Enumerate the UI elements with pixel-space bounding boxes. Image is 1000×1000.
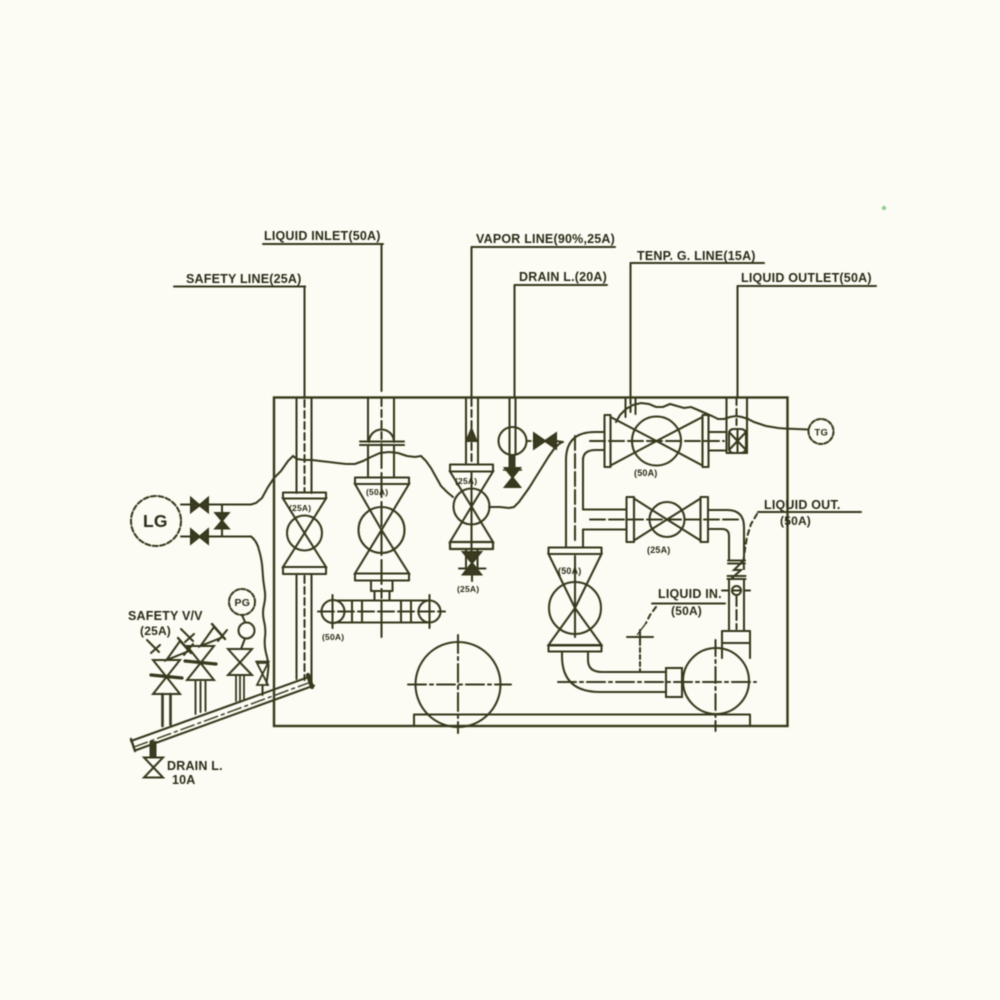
label VAPOR LINE(90%,25A) with leader [472, 232, 616, 397]
svg-text:DRAIN L.(20A): DRAIN L.(20A) [519, 270, 607, 284]
green scan speck [882, 206, 886, 210]
vapor line pipe (25A) vertical [466, 398, 478, 465]
pump casing circle [683, 640, 749, 731]
safety line globe valve (25A) vertical [283, 493, 326, 575]
safety valve 1 riser [163, 694, 171, 726]
equipment base plinth [414, 715, 750, 726]
temperature gauge TG [809, 419, 834, 444]
header drain stem [150, 741, 157, 757]
TG connection line [784, 429, 809, 430]
pump discharge vertical pipe [729, 579, 744, 631]
bypass globe valve (25A) horizontal [590, 497, 741, 555]
skid unit boundary box [274, 398, 788, 727]
svg-text:LIQUID IN.: LIQUID IN. [658, 587, 722, 601]
svg-text:DRAIN L.: DRAIN L. [167, 759, 223, 773]
leader x mark to safety valve 1 [147, 640, 160, 653]
drain line pipe (20A) vertical [510, 398, 516, 429]
branch pipe to bypass valve [583, 510, 626, 530]
LG upper isolation valve [191, 498, 208, 512]
outlet connection fitting [709, 429, 748, 453]
liquid in tap on suction pipe [627, 630, 653, 671]
label LIQUID IN.(50A) with arrow leader [637, 587, 725, 635]
bypass outlet elbow down [708, 510, 744, 560]
svg-text:LIQUID INLET(50A): LIQUID INLET(50A) [264, 229, 381, 243]
PG siphon to valve line [241, 639, 245, 650]
svg-text:LG: LG [143, 511, 168, 531]
capillary line LG to vapor valve and drain stub [251, 452, 453, 505]
drain side line with valve [527, 434, 564, 449]
header end cap [308, 675, 312, 687]
drain pot bottom valve [504, 468, 522, 487]
pump suction centerline [558, 681, 756, 683]
header drain valve 10A [144, 758, 163, 778]
svg-text:(50A): (50A) [322, 632, 344, 642]
svg-text:(25A): (25A) [647, 545, 671, 555]
liquid outlet pipe (50A) from box top [727, 398, 748, 454]
vapor-out globe valve (50A) horizontal [590, 415, 724, 478]
vapor globe valve (25A) vertical [450, 465, 493, 553]
inlet valve outlet stem [371, 581, 393, 601]
svg-text:(25A): (25A) [140, 624, 171, 638]
drain pot bottom stem (solid) [509, 455, 516, 467]
svg-text:(25A): (25A) [455, 476, 477, 486]
PG siphon circle [239, 623, 255, 639]
gauge isolation valve under PG [228, 649, 252, 675]
vapor line flow arrow [467, 429, 477, 441]
label TENP. G. LINE(15A) with leader [631, 249, 765, 397]
drain pot circle [499, 427, 527, 455]
svg-text:(50A): (50A) [366, 487, 388, 497]
level gauge LG [131, 496, 181, 546]
label SAFETY LINE(25A) with leader [174, 272, 306, 397]
svg-text:(50A): (50A) [558, 566, 582, 576]
safety valve outlet pipe to header [297, 574, 312, 684]
outlet pipe union fitting [728, 561, 746, 580]
gauge valve riser [236, 675, 244, 702]
LG lower isolation valve [191, 530, 208, 544]
svg-text:PG: PG [235, 597, 251, 609]
liquid 50A main valve vertical [549, 548, 602, 652]
small header valve 4 [256, 662, 269, 686]
liquid inlet pipe (50A) vertical [368, 398, 394, 442]
inlet strainer spool assembly (50A) [318, 595, 445, 642]
pump discharge nozzle [722, 631, 750, 658]
capillary temp line to TG over valve [616, 403, 784, 429]
safety relief valve 1 (25A) [151, 638, 193, 694]
slanted safety header pipe [131, 676, 314, 751]
label DRAIN L. 10A [167, 759, 223, 787]
vapor header vertical pipe [566, 436, 583, 547]
tank vessel circle [408, 635, 511, 733]
label LIQUID OUT.(50A) with dashed leader [744, 498, 862, 569]
vapor valve bottom drain valve [457, 549, 486, 594]
pressure gauge PG [229, 589, 255, 615]
label SAFETY V/V (25A) [128, 609, 203, 638]
LG upper gauge line [181, 503, 251, 505]
svg-text:SAFETY LINE(25A): SAFETY LINE(25A) [186, 272, 302, 286]
svg-text:TG: TG [815, 428, 829, 439]
label LIQUID OUTLET(50A) with leader [738, 271, 877, 397]
liquid inlet globe valve (50A) vertical [355, 444, 409, 598]
svg-text:TENP. G. LINE(15A): TENP. G. LINE(15A) [637, 249, 756, 263]
pump suction flange [666, 668, 682, 697]
safety valve 2 riser [196, 680, 206, 714]
LG equalizing valve [216, 513, 229, 529]
svg-text:(25A): (25A) [289, 503, 311, 513]
PG connection line [242, 615, 245, 622]
svg-text:SAFETY V/V: SAFETY V/V [128, 609, 203, 623]
svg-text:10A: 10A [172, 773, 196, 787]
LG equalizing line [221, 505, 223, 537]
svg-text:VAPOR LINE(90%,25A): VAPOR LINE(90%,25A) [476, 232, 615, 246]
main valve outlet elbow to pump [562, 652, 666, 693]
outlet pipe thermowell tap [722, 586, 750, 595]
leader x mark to safety valve 2 [181, 629, 194, 642]
liquid inlet valve bonnet dome [360, 430, 404, 478]
vapor outlet elbow top right [566, 432, 604, 460]
safety line pipe (25A) vertical [297, 398, 312, 494]
temp gauge line stub into valve [626, 398, 636, 418]
svg-text:(50A): (50A) [671, 604, 702, 618]
label LIQUID INLET(50A) with leader [263, 229, 383, 391]
label DRAIN L.(20A) with leader [515, 270, 608, 397]
svg-text:(50A): (50A) [780, 514, 811, 528]
capillary line LG lower to safety header valve [251, 537, 269, 684]
safety relief valve 2 (25A) [185, 624, 227, 680]
svg-text:LIQUID OUT.: LIQUID OUT. [764, 498, 841, 512]
LG lower gauge line [181, 535, 251, 537]
svg-text:(25A): (25A) [457, 584, 479, 594]
svg-text:(50A): (50A) [634, 468, 658, 478]
valve 4 stub [261, 685, 263, 695]
svg-text:LIQUID OUTLET(50A): LIQUID OUTLET(50A) [741, 271, 872, 285]
